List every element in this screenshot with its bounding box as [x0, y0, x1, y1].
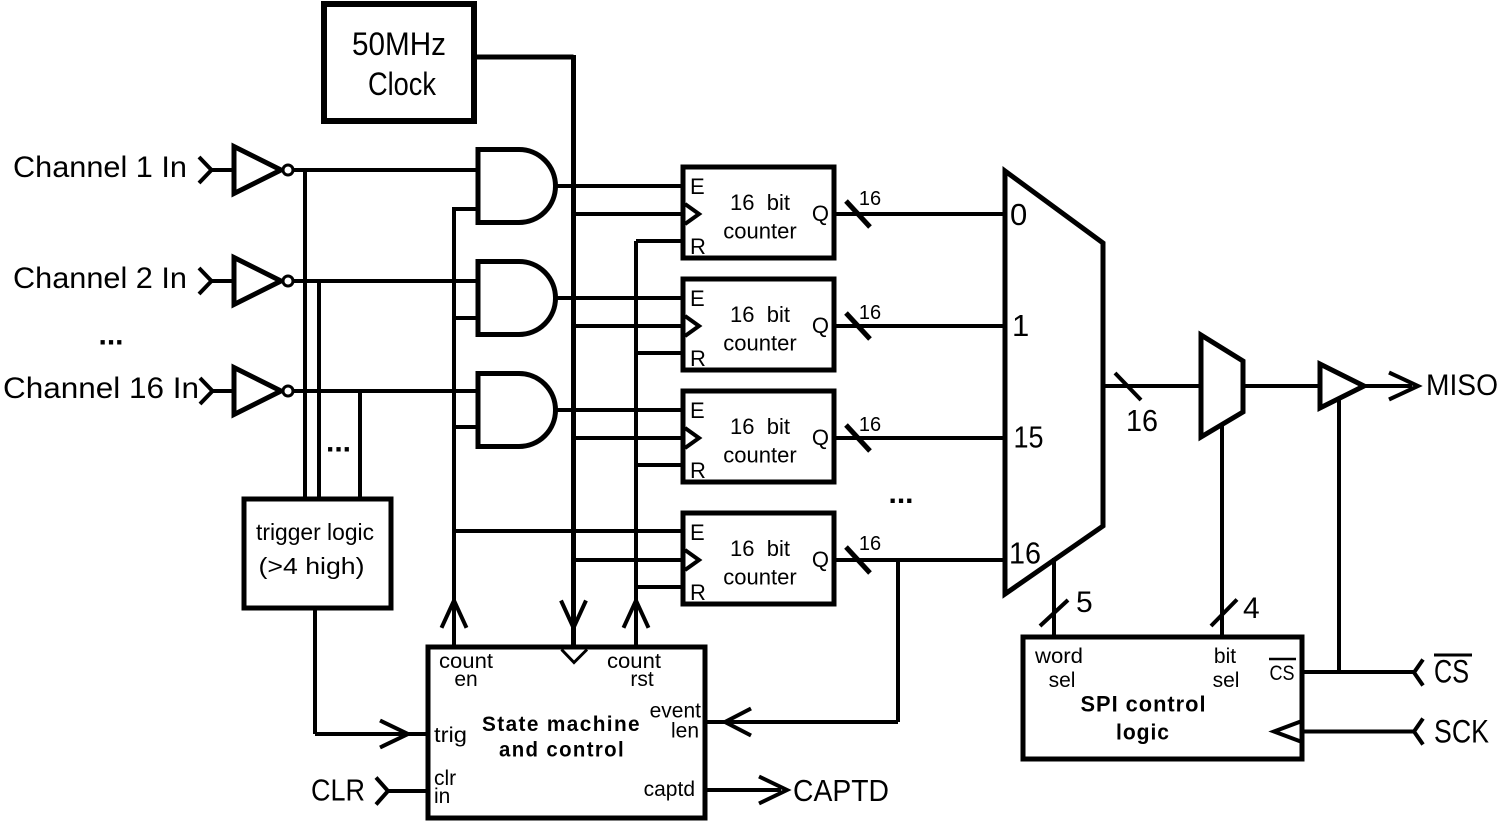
svg-text:CS: CS	[1434, 654, 1469, 690]
bus bit sel to MUX2	[1220, 425, 1224, 638]
svg-text:16 bit: 16 bit	[730, 302, 790, 327]
svg-text:(>4 high): (>4 high)	[259, 553, 365, 579]
AND gate A3	[478, 374, 556, 447]
bus MUX1 output	[1103, 384, 1201, 388]
wire channel 1 drop to trigger logic	[303, 170, 307, 499]
wire channel 2 drop to trigger logic	[317, 281, 321, 499]
svg-text:1: 1	[1012, 308, 1029, 343]
svg-text:...: ...	[326, 426, 351, 459]
bus slash U2.Q	[846, 201, 870, 227]
svg-text:50MHz: 50MHz	[352, 26, 446, 62]
wire clock branch to counter U2 clk	[574, 212, 686, 216]
svg-text:len: len	[671, 720, 699, 743]
svg-text:MISO: MISO	[1426, 369, 1498, 402]
wire clock branch to counter U3 clk	[574, 324, 686, 328]
wire A3 output to U4.E	[555, 408, 685, 412]
svg-text:E: E	[690, 174, 705, 199]
arrowhead count rst (up)	[624, 601, 649, 628]
wire count en stub to A1	[454, 207, 478, 211]
wire CLR to clr in	[388, 789, 428, 793]
wire trigger logic output down	[313, 608, 317, 734]
trigger logic block U1	[244, 499, 391, 608]
svg-text:logic: logic	[1116, 720, 1170, 745]
tri-state output buffer B4	[1320, 364, 1364, 408]
wire count rst branch to U2.R	[636, 239, 685, 243]
svg-text:trig: trig	[434, 724, 467, 747]
svg-text:R: R	[690, 458, 706, 483]
svg-text:Clock: Clock	[368, 66, 437, 102]
bus slash U4.Q	[846, 425, 870, 451]
wire channel 2 to AND gate A2	[293, 279, 478, 283]
wire channel 1 input	[212, 168, 235, 172]
svg-text:E: E	[690, 286, 705, 311]
bus word sel to MUX1	[1052, 558, 1056, 637]
bus slash U5.Q	[846, 547, 870, 573]
port chevron SCK	[1414, 719, 1423, 745]
bus slash bit sel	[1211, 600, 1237, 627]
arrowhead clock into state machine	[561, 601, 586, 628]
wire event length branch down from U5.Q	[896, 560, 900, 722]
svg-text:Channel 2 In: Channel 2 In	[13, 262, 187, 295]
arrowhead count en (up)	[442, 601, 467, 628]
svg-text:R: R	[690, 580, 706, 605]
svg-text:5: 5	[1076, 586, 1093, 619]
wire count en stub to A3	[454, 425, 478, 429]
16 bit counter U4	[683, 391, 834, 483]
bus slash U3.Q	[846, 313, 870, 339]
svg-text:15: 15	[1014, 420, 1044, 455]
bus U4.Q to mux input 15	[834, 436, 1005, 440]
16 bit counter U2	[683, 167, 834, 259]
wire tri-state enable from CS	[1337, 398, 1341, 672]
SPI control logic block U8	[1023, 637, 1302, 759]
bus slash MUX1 output	[1115, 373, 1141, 400]
arrowhead CAPTD (right)	[759, 777, 787, 804]
svg-text:sel: sel	[1213, 669, 1240, 692]
svg-text:R: R	[690, 346, 706, 371]
svg-text:16 bit: 16 bit	[730, 536, 790, 561]
arrowhead trig (right)	[380, 721, 408, 748]
svg-text:Channel 16 In: Channel 16 In	[3, 372, 199, 405]
wire clock branch to counter U5 clk	[574, 558, 686, 562]
buffer B1 channel 1	[234, 147, 281, 194]
port chevron Channel 2 In	[199, 268, 212, 294]
svg-text:16: 16	[859, 302, 881, 324]
wire channel 16 drop to trigger logic	[358, 391, 362, 499]
svg-text:Q: Q	[812, 313, 829, 338]
svg-text:counter: counter	[723, 443, 796, 468]
clock edge chevron inside state machine	[562, 650, 588, 663]
wire captd output	[705, 788, 781, 792]
wire net count_rst vertical	[634, 241, 638, 647]
wire net count_en vertical	[452, 207, 456, 647]
bus U5.Q to mux input 16	[834, 558, 1005, 562]
port chevron Channel 16 In	[200, 378, 213, 404]
svg-text:Q: Q	[812, 547, 829, 572]
wire trig into state machine	[315, 732, 428, 736]
wire SCK input	[1302, 730, 1414, 734]
bus U2.Q to mux input 0	[834, 212, 1005, 216]
svg-text:captd: captd	[644, 778, 695, 801]
wire count en branch to counter U5.E	[454, 529, 685, 533]
svg-text:16 bit: 16 bit	[730, 414, 790, 439]
svg-text:...: ...	[98, 319, 123, 352]
16 bit counter U3	[683, 279, 834, 371]
svg-text:Channel 1 In: Channel 1 In	[13, 151, 187, 184]
port chevron Channel 1 In	[199, 157, 212, 183]
svg-text:in: in	[434, 785, 450, 808]
svg-text:SPI control: SPI control	[1081, 692, 1207, 717]
wire A1 output to U2.E	[555, 184, 685, 188]
inverter bubble B1	[283, 165, 293, 175]
arrowhead event len (left)	[725, 709, 751, 736]
svg-text:en: en	[454, 668, 477, 691]
svg-text:counter: counter	[723, 565, 796, 590]
svg-text:and control: and control	[499, 739, 625, 762]
wire channel 16 input	[213, 389, 235, 393]
svg-text:sel: sel	[1049, 669, 1076, 692]
svg-text:16: 16	[1126, 403, 1158, 438]
bus MUX2 output	[1243, 384, 1320, 388]
buffer B2 channel 2	[234, 258, 281, 305]
wire clock output horizontal	[474, 55, 574, 60]
arrowhead MISO (right)	[1389, 373, 1418, 400]
svg-text:0: 0	[1010, 197, 1027, 232]
bus slash word sel	[1040, 600, 1068, 626]
node: CS label with overline	[1434, 654, 1472, 690]
svg-text:State machine: State machine	[482, 713, 641, 736]
svg-text:word: word	[1034, 645, 1083, 668]
50MHz clock oscillator OSC1	[324, 4, 474, 121]
svg-text:R: R	[690, 234, 706, 259]
wire count en stub to A2	[454, 316, 478, 320]
state machine and control block U6	[428, 647, 705, 818]
MUX1 word multiplexer	[1005, 171, 1103, 594]
port chevron CS	[1414, 660, 1423, 686]
port chevron CLR	[376, 778, 388, 805]
svg-text:E: E	[690, 520, 705, 545]
AND gate A2	[478, 262, 556, 335]
svg-text:16: 16	[859, 414, 881, 436]
svg-text:Q: Q	[812, 425, 829, 450]
wire count rst branch to U4.R	[636, 463, 685, 467]
svg-text:rst: rst	[630, 668, 653, 691]
svg-text:16: 16	[859, 533, 881, 555]
wire channel 2 input	[212, 279, 235, 283]
svg-text:Q: Q	[812, 201, 829, 226]
inverter bubble B3	[283, 386, 293, 396]
svg-text:CAPTD: CAPTD	[793, 773, 889, 808]
svg-text:16 bit: 16 bit	[730, 190, 790, 215]
svg-text:E: E	[690, 398, 705, 423]
wire clock distribution vertical (net CLK)	[571, 55, 576, 647]
16 bit counter U5	[683, 513, 834, 605]
wire channel 1 to AND gate A1	[293, 168, 478, 172]
svg-text:trigger logic: trigger logic	[256, 519, 374, 545]
svg-text:CS: CS	[1270, 662, 1295, 685]
MUX2 bit multiplexer	[1201, 335, 1243, 437]
wire A2 output to U3.E	[555, 296, 685, 300]
svg-text:counter: counter	[723, 331, 796, 356]
wire clock branch to counter U4 clk	[574, 436, 686, 440]
inverter bubble B2	[283, 276, 293, 286]
wire count rst branch to U5.R	[636, 585, 685, 589]
svg-text:...: ...	[888, 477, 913, 510]
svg-text:16: 16	[859, 188, 881, 210]
wire channel 16 to AND gate A3	[293, 389, 478, 393]
svg-text:CLR: CLR	[311, 773, 365, 808]
svg-text:SCK: SCK	[1434, 714, 1489, 750]
wire count rst branch to U3.R	[636, 351, 685, 355]
wire MISO output	[1364, 384, 1412, 388]
svg-text:16: 16	[1009, 536, 1041, 571]
svg-text:bit: bit	[1214, 645, 1236, 668]
buffer B3 channel 16	[234, 368, 281, 415]
svg-text:4: 4	[1243, 592, 1260, 625]
AND gate A1	[478, 150, 556, 223]
wire event len into state machine	[705, 720, 898, 724]
svg-text:counter: counter	[723, 219, 796, 244]
bus U3.Q to mux input 1	[834, 324, 1005, 328]
wire CS input	[1302, 670, 1414, 674]
arrowhead SCK into SPI control (clock style)	[1274, 721, 1302, 742]
